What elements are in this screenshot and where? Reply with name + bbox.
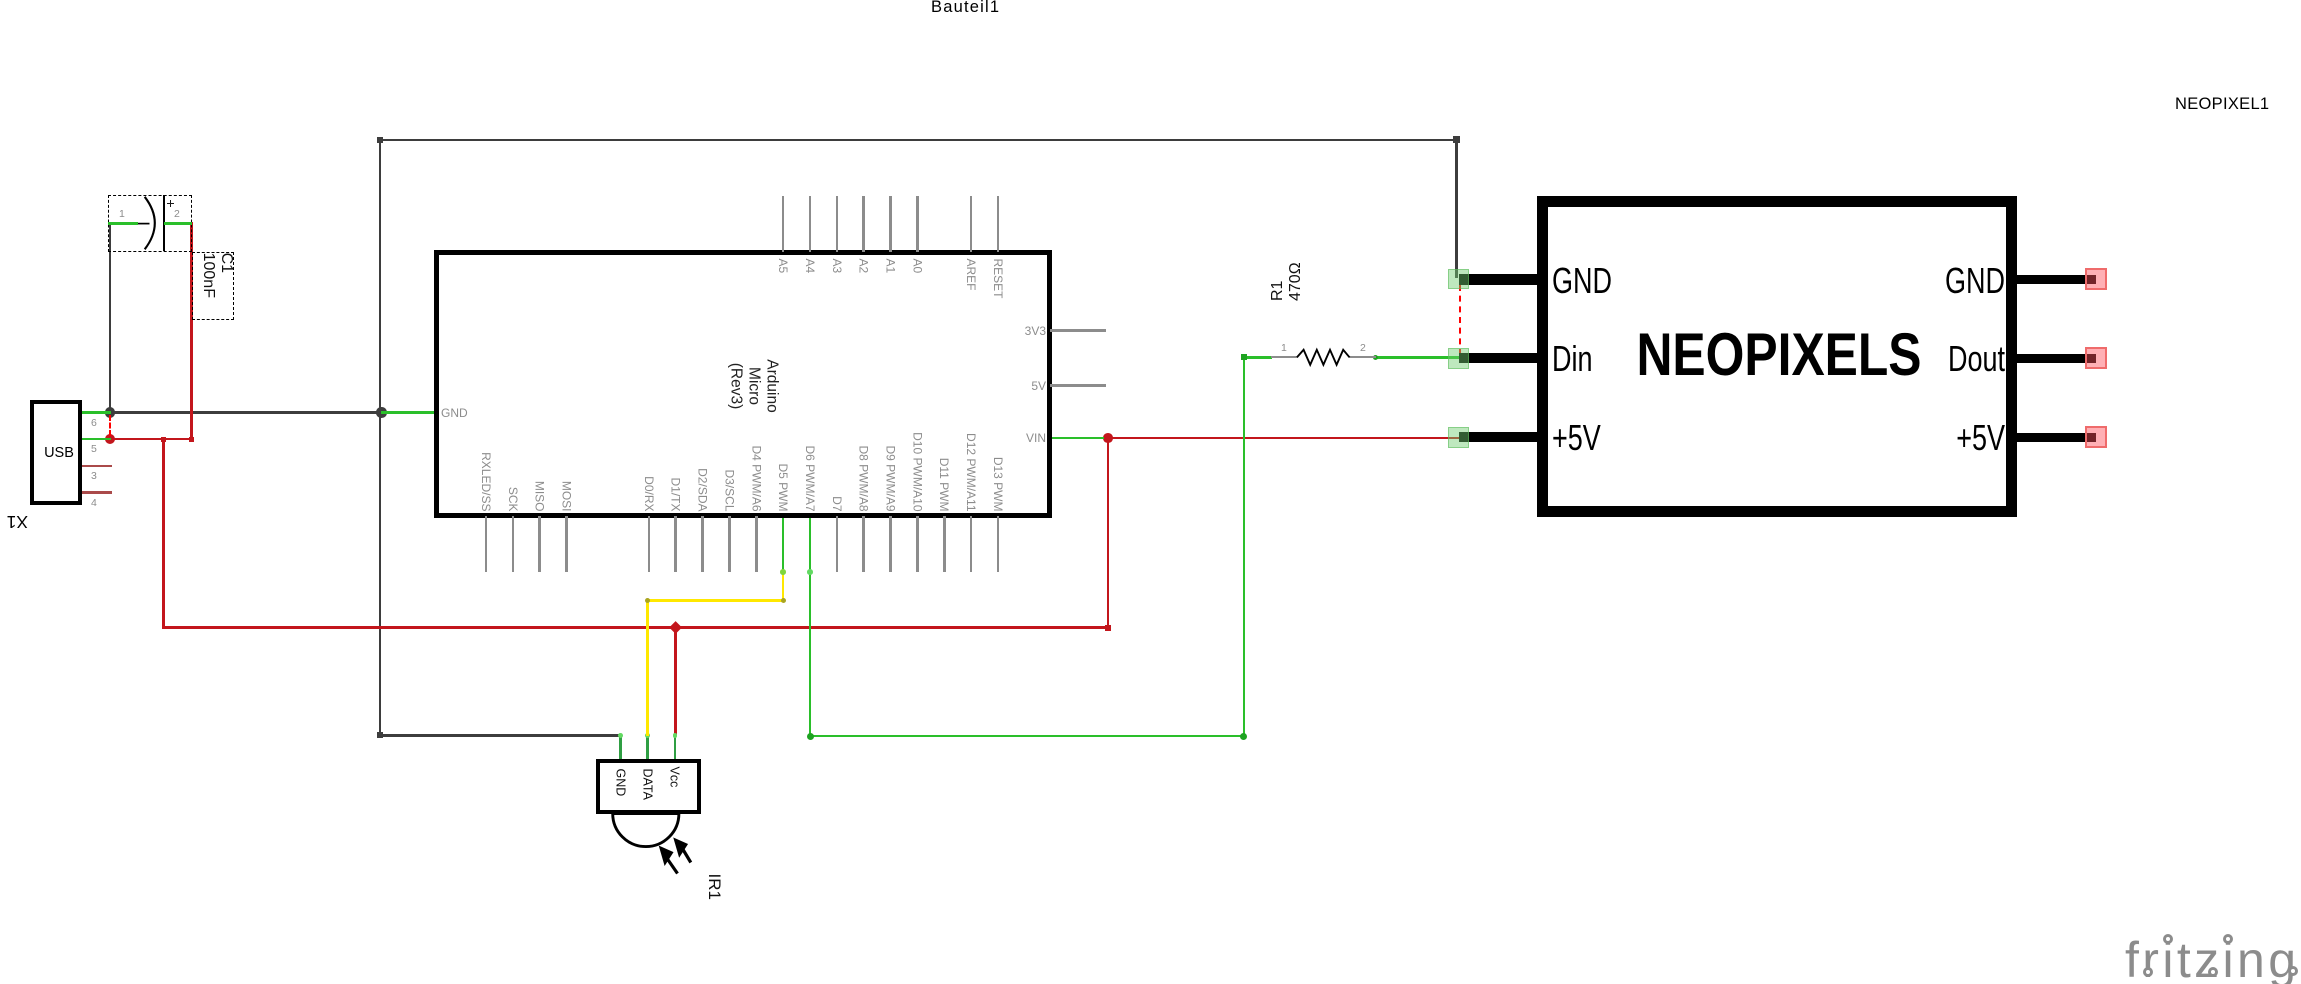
Arduino top pin A4: [809, 196, 812, 252]
Arduino bottom pin D1/TX: [674, 516, 677, 572]
label IR1: [704, 874, 724, 914]
bend dot red cap wire end: [189, 437, 194, 442]
USB pin 4: [82, 491, 112, 494]
pin end dot green IR DATA: [645, 733, 650, 738]
Arduino bottom pin D8: [862, 516, 865, 572]
USB connector X1: [30, 400, 83, 505]
bend dot gray top-left: [377, 137, 383, 143]
fritzing logo ring g: [2288, 966, 2298, 976]
USB pin number 3: [91, 470, 97, 482]
NeoPixel box: [1537, 196, 2017, 517]
wire red VIN to NeoPixel +5V: [1103, 437, 1460, 440]
capacitor C1 straight plate: [163, 195, 165, 251]
capacitor C1 pin number 1: [119, 208, 125, 220]
Arduino bottom pin MOSI: [565, 516, 568, 572]
junction dot red USB pin5: [105, 434, 115, 444]
pin stub green IR Vcc: [674, 734, 677, 761]
pin stub green Arduino D5: [782, 516, 785, 572]
NeoPixel title NEOPIXELS: [1613, 325, 1945, 385]
Arduino Micro U1 box: [434, 250, 1052, 518]
Arduino pin label A2: [857, 259, 871, 512]
Arduino pin label AREF: [964, 259, 978, 512]
title label Bauteil1: [931, 0, 1000, 17]
IR sensor IR1 box: [596, 759, 702, 814]
Arduino top pin A1: [889, 196, 892, 252]
capacitor C1 value label: [198, 253, 235, 343]
resistor R1: [1271, 356, 1298, 358]
NeoPixel red pad GND: [2085, 268, 2107, 290]
NeoPixel green pad Din: [1448, 348, 1469, 369]
Arduino right pin 5V: [1050, 384, 1106, 387]
Arduino pin label A3: [830, 259, 844, 512]
capacitor C1: [108, 195, 193, 252]
Arduino bottom pin MISO: [538, 516, 541, 572]
Arduino bottom pin D10: [916, 516, 919, 572]
NeoPixel pin label Dout: [1930, 341, 2005, 377]
Arduino bottom pin D7: [836, 516, 839, 572]
Arduino pin label D4 PWM/A6: [749, 259, 763, 512]
wire red USB pin5 horizontal: [109, 438, 192, 441]
NeoPixel pin label +5V left: [1552, 420, 1601, 456]
resistor R1 value label: [1269, 211, 1306, 301]
resistor R1 pin number 1: [1281, 342, 1287, 354]
junction dot red IR Vcc node (diamond): [669, 621, 682, 634]
IR pin label DATA: [640, 769, 654, 813]
ratsnest dashed NeoPixel GND-Din: [1459, 285, 1461, 355]
NeoPixel green pad GND: [1448, 269, 1469, 290]
wire gray right vertical to NeoPixel GND: [1455, 139, 1458, 278]
resistor R1 pin number 2: [1360, 342, 1366, 354]
ratsnest dashed USB pin6-pin5: [109, 415, 111, 436]
title label NEOPIXEL1: [2175, 95, 2269, 114]
Arduino bottom pin D4: [755, 516, 758, 572]
Arduino bottom pin RXLED/SS: [485, 516, 488, 572]
fritzing logo ring z: [2208, 967, 2218, 977]
wire green resistor left lead wire: [1243, 356, 1272, 359]
pin end dot green IR Vcc: [673, 733, 678, 738]
Arduino pin label A4: [803, 259, 817, 512]
NeoPixel NEOPIXEL1 left pin bar GND: [1459, 274, 1538, 284]
pin stub green Arduino VIN: [1051, 437, 1104, 440]
NeoPixel right pin bar +5V: [2016, 433, 2096, 442]
Arduino bottom pin D12: [970, 516, 973, 572]
bend dot gray bottom-left: [377, 732, 383, 738]
junction dot gray USB pin6 node: [105, 407, 116, 418]
bend dot green resistor corner: [1241, 354, 1247, 360]
NeoPixel pin label GND right: [1930, 263, 2005, 299]
Arduino pin label D10 PWM/A10: [910, 259, 924, 512]
IR sensor arrows: [660, 838, 691, 873]
Arduino pin label 5V: [1006, 379, 1046, 393]
Arduino pin label D3/SCL: [722, 259, 736, 512]
Arduino bottom pin D11: [943, 516, 946, 572]
USB pin 6: [82, 411, 111, 414]
bend dot green resistor right: [1373, 355, 1378, 360]
USB pin number 6: [91, 417, 97, 429]
wire red vertical up to VIN: [1107, 437, 1110, 629]
pin end dot green IR GND: [618, 733, 623, 738]
Arduino pin label 3V3: [1006, 324, 1046, 338]
Arduino top pin RESET: [997, 196, 1000, 252]
Arduino pin label A0: [910, 259, 924, 512]
Arduino pin label A5: [776, 259, 790, 512]
wire green Arduino D6 down: [809, 516, 812, 736]
Arduino bottom pin D13: [997, 516, 1000, 572]
IR pin label Vcc: [668, 767, 682, 811]
NeoPixel left pin bar Din: [1459, 353, 1538, 363]
bend dot green right corner: [1240, 733, 1247, 740]
pin stub green IR GND: [619, 734, 622, 761]
Arduino pin label VIN: [1006, 431, 1046, 445]
Arduino bottom pin D3/SCL: [728, 516, 731, 572]
Arduino bottom pin D2/SDA: [701, 516, 704, 572]
wire red capacitor pin2 down: [190, 222, 193, 440]
NeoPixel left pin bar +5V: [1459, 432, 1538, 442]
fritzing logo ring i2: [2223, 934, 2233, 944]
USB pin number 5: [91, 443, 97, 455]
fritzing watermark: [2125, 931, 2299, 984]
NeoPixel right pin bar Dout: [2016, 354, 2096, 363]
NeoPixel red pad Dout: [2085, 347, 2107, 369]
NeoPixel pin label GND left: [1552, 263, 1612, 299]
bend dot olive left corner: [645, 598, 650, 603]
wire red long bottom horizontal: [162, 626, 1109, 629]
Arduino pin label D12 PWM/A11: [964, 259, 978, 512]
capacitor C1 curved plate: [145, 197, 155, 250]
fritzing logo ring i1: [2163, 934, 2173, 944]
Arduino pin label MISO: [533, 259, 547, 512]
Arduino pin label SCK: [506, 259, 520, 512]
wire red down to IR Vcc: [674, 626, 677, 736]
wire gray top horizontal: [379, 139, 1458, 142]
junction dot gray GND node: [376, 407, 387, 418]
wire gray left vertical: [379, 139, 382, 737]
capacitor C1 plus sign: [167, 203, 174, 205]
resistor R1 zigzag: [1297, 350, 1350, 365]
bend dot gray top-right: [1453, 136, 1461, 144]
Arduino pin label D8 PWM/A8: [857, 259, 871, 512]
pin stub green IR DATA: [646, 734, 649, 761]
NeoPixel pin label Din: [1552, 341, 1593, 377]
wire yellow horizontal: [646, 599, 784, 602]
Arduino pin label D2/SDA: [696, 259, 710, 512]
Arduino pin label D1/TX: [669, 259, 683, 512]
label X1: [2, 511, 28, 532]
Arduino center label: [727, 331, 781, 441]
USB pin 3: [82, 465, 112, 468]
Arduino pin label D6 PWM/A7: [803, 259, 817, 512]
pin end dot green D6: [807, 569, 813, 575]
Arduino pin label D5 PWM: [776, 259, 790, 512]
Arduino right pin 3V3: [1050, 329, 1106, 332]
Arduino pin label GND: [441, 406, 468, 420]
wire red vertical down from tee: [162, 438, 165, 629]
Arduino bottom pin SCK: [512, 516, 515, 572]
Arduino pin label MOSI: [560, 259, 574, 512]
Arduino pin label A1: [884, 259, 898, 512]
fritzing logo ring r: [2143, 967, 2153, 977]
wire gray bottom horizontal to IR GND: [379, 734, 622, 737]
NeoPixel red pad +5V: [2085, 426, 2107, 448]
bend dot olive D5 corner: [781, 598, 786, 603]
capacitor C1 pin number 2: [174, 208, 180, 220]
wire gray capacitor pin1 down: [109, 222, 112, 412]
NeoPixel pin label +5V right: [1930, 420, 2005, 456]
bend dot red corner bottom-right: [1105, 625, 1111, 631]
wire gray USB pin6 to junction: [109, 411, 383, 414]
IR pin label GND: [613, 769, 627, 813]
capacitor C1 pin 2: [164, 222, 193, 225]
Arduino pin label D9 PWM/A9: [884, 259, 898, 512]
capacitor C1 pin 1: [108, 222, 138, 225]
Arduino top pin A0: [916, 196, 919, 252]
Arduino top pin A5: [782, 196, 785, 252]
NeoPixel right pin bar GND: [2016, 275, 2096, 284]
Arduino pin label D0/RX: [642, 259, 656, 512]
pin end dot D5: [780, 569, 786, 575]
Arduino pin label D13 PWM: [991, 259, 1005, 512]
NeoPixel green pad +5V: [1448, 427, 1469, 448]
Arduino top pin AREF: [970, 196, 973, 252]
Arduino pin label RESET: [991, 259, 1005, 512]
Arduino pin label D7: [830, 259, 844, 512]
Arduino top pin A3: [836, 196, 839, 252]
Arduino bottom pin D9: [889, 516, 892, 572]
Arduino pin label RXLED/SS: [479, 259, 493, 512]
USB pin number 4: [91, 497, 97, 509]
wire yellow D5 vertical: [782, 570, 785, 602]
bend dot red tee: [161, 437, 166, 442]
wire green junction to Arduino GND: [381, 411, 436, 414]
USB pin 5: [82, 438, 111, 441]
wire green bottom horizontal: [809, 735, 1246, 738]
wire yellow DATA vertical: [646, 599, 649, 736]
Arduino pin label D11 PWM: [937, 259, 951, 512]
junction dot red VIN node: [1103, 433, 1113, 443]
bend dot green D6 corner: [807, 733, 814, 740]
USB label: [42, 445, 76, 461]
Arduino top pin A2: [862, 196, 865, 252]
Arduino bottom pin D0/RX: [648, 516, 651, 572]
wire green resistor to Din: [1375, 356, 1460, 359]
wire green vertical up to resistor: [1243, 356, 1246, 737]
